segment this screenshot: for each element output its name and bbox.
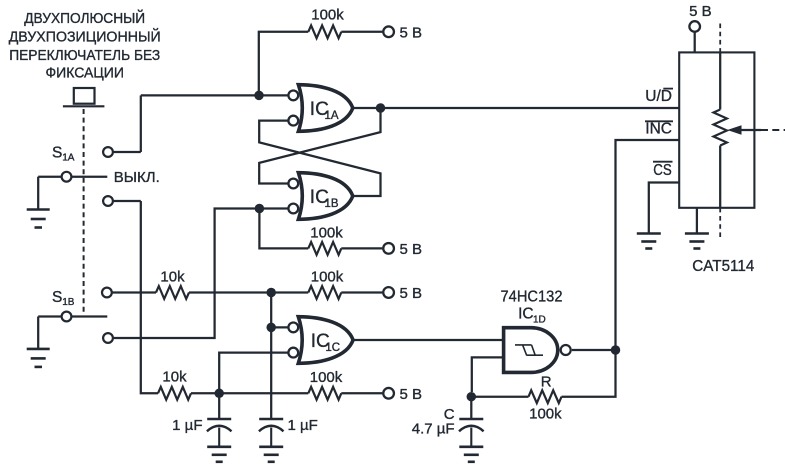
svg-text:R: R (541, 374, 552, 391)
svg-text:1B: 1B (62, 297, 75, 308)
svg-text:ДВУХПОЗИЦИОННЫЙ: ДВУХПОЗИЦИОННЫЙ (9, 27, 161, 45)
svg-text:5 В: 5 В (400, 285, 423, 302)
svg-text:U/D: U/D (645, 88, 672, 105)
svg-text:4.7 µF: 4.7 µF (412, 421, 455, 438)
svg-text:100k: 100k (310, 224, 343, 241)
svg-text:74HC132: 74HC132 (501, 288, 563, 305)
svg-text:ПЕРЕКЛЮЧАТЕЛЬ БЕЗ: ПЕРЕКЛЮЧАТЕЛЬ БЕЗ (9, 47, 160, 64)
svg-text:ДВУХПОЛЮСНЫЙ: ДВУХПОЛЮСНЫЙ (24, 9, 145, 27)
svg-text:1 µF: 1 µF (288, 417, 318, 434)
svg-text:INC: INC (645, 120, 672, 137)
svg-text:1A: 1A (325, 110, 339, 122)
svg-text:ВЫКЛ.: ВЫКЛ. (114, 169, 160, 186)
svg-text:1D: 1D (533, 314, 546, 325)
svg-text:CS: CS (653, 162, 672, 179)
svg-text:100k: 100k (311, 269, 344, 286)
svg-text:5 В: 5 В (400, 241, 423, 258)
svg-text:1C: 1C (325, 342, 340, 354)
svg-text:5 В: 5 В (400, 386, 423, 403)
svg-text:10k: 10k (162, 369, 187, 386)
svg-text:ФИКСАЦИИ: ФИКСАЦИИ (45, 65, 124, 82)
svg-text:10k: 10k (160, 269, 185, 286)
svg-text:1B: 1B (325, 198, 339, 210)
svg-text:IC: IC (518, 306, 534, 323)
svg-text:100k: 100k (310, 369, 343, 386)
svg-text:100k: 100k (529, 406, 562, 423)
svg-text:CAT5114: CAT5114 (692, 258, 754, 275)
svg-text:1A: 1A (62, 153, 75, 164)
svg-text:5 В: 5 В (400, 24, 423, 41)
svg-text:5 В: 5 В (689, 3, 712, 20)
svg-text:100k: 100k (311, 7, 344, 24)
svg-text:S: S (52, 289, 62, 306)
svg-text:1 µF: 1 µF (172, 417, 202, 434)
svg-text:S: S (52, 145, 62, 162)
